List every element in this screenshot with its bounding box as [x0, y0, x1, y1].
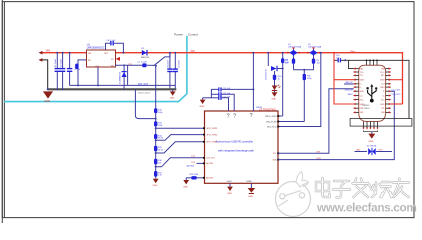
svg-text:5V0: 5V0: [191, 50, 196, 53]
wire cyan power/control boundary: [4, 36, 187, 102]
capacitor C3: [67, 52, 81, 86]
ground U3 GND2 pin: [227, 183, 233, 195]
svg-text:Q3 DTC143: Q3 DTC143: [265, 68, 267, 80]
op-amp U1 buck regulator LMR16006: [87, 43, 116, 68]
node VIN port: [39, 48, 51, 54]
wire resistor ladder spine: [155, 66, 157, 179]
resistor R9 gate: [312, 56, 320, 69]
svg-text:100k: 100k: [307, 78, 311, 80]
inductor L1: [138, 62, 154, 68]
capacitor C11 bypass row2: [211, 92, 234, 111]
svg-text:R18 100k: R18 100k: [190, 174, 199, 176]
resistor R17 ladder: [154, 166, 163, 177]
transistor Q1 power FET: [287, 44, 301, 56]
capacitor C12 bypass row3: [203, 96, 231, 111]
svg-text:USB_DP: USB_DP: [345, 82, 353, 84]
diode D3 LED: [272, 85, 281, 91]
svg-text:GND: GND: [227, 193, 232, 195]
wire SDA net to connector CC: [278, 91, 394, 160]
wire U1 SW output: [115, 64, 142, 66]
wire shield top loop: [349, 60, 409, 118]
ground R18: [183, 178, 189, 189]
svg-text:GND: GND: [153, 185, 158, 187]
svg-text:GPIO_PWR2: GPIO_PWR2: [206, 134, 217, 136]
diode D4 ESD TVS array: [355, 146, 393, 156]
node U3 right pin labels: [265, 116, 277, 128]
node U3 bottom pin labels: [227, 180, 253, 183]
wire shield stub to connector: [349, 60, 354, 68]
svg-text:TX2+: TX2+: [381, 99, 385, 101]
svg-text:ADCIN1: ADCIN1: [206, 162, 213, 165]
wire ladder tap 1 to U3: [156, 127, 205, 129]
svg-text:GND: GND: [170, 98, 175, 100]
svg-text:100k: 100k: [158, 125, 162, 127]
capacitor C9: [173, 52, 181, 89]
svg-text:TX1-: TX1-: [360, 75, 364, 77]
svg-text:49.9k: 49.9k: [158, 138, 163, 140]
svg-text:C9 22uF: C9 22uF: [178, 59, 180, 68]
svg-text:LDO_3V3: LDO_3V3: [206, 158, 214, 160]
ground main input: [43, 91, 53, 103]
svg-text:C4 0.1uF: C4 0.1uF: [106, 40, 116, 42]
svg-text:VIN: VIN: [46, 48, 50, 52]
wire GD pin to U3: [278, 121, 304, 123]
svg-text:C1 10uF: C1 10uF: [55, 58, 57, 67]
svg-text:Autonomous USB PD controller: Autonomous USB PD controller: [216, 140, 254, 144]
wire VBUS left drop to connector: [333, 52, 354, 104]
wire inductor output riser to 5V rail: [154, 52, 171, 67]
svg-text:CC_OUT1: CC_OUT1: [392, 90, 401, 92]
svg-text:Power plane: Power plane: [138, 92, 151, 95]
svg-text:GPIO_PWR3: GPIO_PWR3: [206, 142, 217, 144]
svg-text:C12 1uF: C12 1uF: [223, 96, 231, 98]
ground connector shell: [364, 131, 378, 143]
svg-text:CC1: CC1: [360, 95, 363, 97]
svg-text:RX1-: RX1-: [381, 75, 385, 77]
resistor R16 ladder: [154, 152, 163, 165]
svg-text:VBus: VBus: [350, 51, 356, 53]
capacitor C1: [55, 52, 60, 90]
svg-text:D+: D+: [360, 84, 362, 86]
svg-text:ADCIN2: ADCIN2: [206, 177, 213, 180]
diode D2 on rail: [141, 48, 150, 59]
node TP1 test point: [128, 64, 133, 86]
svg-text:10k: 10k: [285, 62, 288, 64]
capacitor C8: [167, 53, 172, 89]
svg-text:?: ?: [250, 113, 253, 119]
svg-text:GND: GND: [44, 99, 50, 103]
resistor R11 gate drive: [303, 70, 312, 122]
svg-text:VBUS: VBUS: [256, 107, 262, 109]
svg-text:1k: 1k: [278, 78, 280, 80]
resistor R10 LED series: [273, 71, 282, 86]
svg-text:VBig_IN_BB: VBig_IN_BB: [266, 121, 277, 123]
svg-text:RX1+: RX1+: [380, 72, 384, 74]
svg-text:100k: 100k: [158, 112, 162, 114]
svg-text:5V0_OUT: 5V0_OUT: [138, 84, 149, 86]
svg-text:?: ?: [233, 114, 236, 120]
resistor R14 ladder: [154, 127, 163, 140]
svg-text:SBU2: SBU2: [380, 87, 384, 89]
wire gate bus: [294, 69, 314, 71]
svg-text:SCL: SCL: [273, 153, 277, 155]
node USB logo trident: [368, 87, 377, 101]
svg-text:VBUS_VRES: VBUS_VRES: [265, 116, 277, 118]
svg-text:CSD17579Q3A: CSD17579Q3A: [308, 45, 322, 48]
wire feed from bus down to ladder: [135, 89, 155, 118]
node GND input port: [39, 58, 48, 89]
svg-text:GND: GND: [248, 196, 253, 198]
svg-text:GND: GND: [271, 99, 276, 101]
wire 5V0_OUT net: [70, 84, 176, 95]
node U3 pin question marks: [227, 113, 253, 119]
capacitor C2: [60, 52, 65, 90]
node I2C address strap labels: [187, 156, 205, 167]
svg-text:TYPE-C: TYPE-C: [362, 108, 370, 110]
svg-text:RX2-: RX2-: [360, 108, 364, 110]
svg-text:GND: GND: [183, 186, 188, 188]
svg-text:ADCIN2: ADCIN2: [187, 165, 195, 168]
svg-text:SW: SW: [111, 65, 114, 67]
wire VBUS cap feed from rail: [252, 52, 262, 111]
svg-text:24.9k: 24.9k: [158, 149, 163, 151]
node U3 left pin labels: [206, 128, 217, 180]
capacitor C4 bootstrap: [106, 40, 125, 54]
op-amp U3 PD controller TPS25750: [205, 108, 279, 183]
svg-text:U1: U1: [87, 43, 91, 47]
wire SCL net to connector D+: [278, 89, 354, 154]
resistor R7 gate: [285, 56, 295, 69]
node CC net labels right: [392, 90, 401, 96]
svg-text:LMR16006XDDC: LMR16006XDDC: [87, 47, 105, 49]
svg-text:D+: D+: [382, 95, 384, 97]
svg-text:L1 2.2uH: L1 2.2uH: [138, 62, 147, 64]
svg-text:C8 22uF: C8 22uF: [167, 59, 169, 68]
svg-text:SBU1: SBU1: [360, 91, 364, 93]
wire ladder tap 2 to U3: [156, 135, 205, 141]
node U3 pin dots left: [203, 127, 205, 178]
resistor R8: [281, 52, 289, 116]
ground output caps: [170, 89, 176, 99]
svg-text:VBus_Rear: VBus_Rear: [267, 125, 277, 128]
wire VBUS right drop to connector: [391, 80, 403, 104]
wire main red 5V rail: [43, 53, 403, 104]
resistor R15 ladder: [154, 139, 163, 151]
wire connector shell box: [350, 119, 412, 127]
svg-text:ThPAD: ThPAD: [246, 180, 253, 183]
svg-text:GND2: GND2: [227, 181, 232, 183]
svg-text:SBU1: SBU1: [348, 94, 353, 96]
wire U1 ground pin to bus: [97, 67, 99, 85]
wire D- stub: [344, 83, 354, 85]
svg-text:GND: GND: [369, 141, 374, 143]
svg-text:D1 MBR0520: D1 MBR0520: [119, 71, 121, 84]
svg-text:?: ?: [227, 114, 230, 120]
svg-text:with integrated discharge path: with integrated discharge path: [218, 148, 254, 152]
svg-text:MBR230: MBR230: [141, 57, 150, 59]
wire ground bus plane: [48, 88, 177, 90]
wire ladder tap 4 to U3: [156, 158, 205, 167]
resistor R12 ladder: [154, 108, 163, 114]
wire R8 column to U3 VBUS_VRES pin: [278, 115, 283, 117]
capacitor C14 shield: [335, 55, 349, 62]
wire VBUS sense to U3: [278, 52, 322, 127]
svg-text:C10 1uF: C10 1uF: [223, 88, 231, 90]
svg-text:Power: Power: [174, 32, 183, 36]
svg-text:Control: Control: [188, 32, 198, 36]
node U3 right pin dots: [277, 115, 279, 160]
svg-text:GND: GND: [200, 106, 205, 108]
capacitor C10 bypass row1: [211, 87, 253, 97]
ground LED: [271, 91, 277, 101]
node connector bottom pins: [364, 122, 378, 128]
node Power Control divider labels: [174, 32, 198, 36]
svg-text:C2 10uF: C2 10uF: [61, 58, 63, 67]
connector J1 USB Type-C body: [359, 65, 386, 121]
node elecfans watermark logo: [276, 172, 311, 217]
node connector right pins: [380, 67, 391, 114]
svg-text:D4 TPD2E: D4 TPD2E: [367, 146, 377, 148]
svg-text:TX1+: TX1+: [360, 72, 364, 74]
resistor R18 pulldown: [186, 174, 204, 179]
svg-text:GPIO_PWR1: GPIO_PWR1: [206, 128, 217, 130]
svg-text:C11 1uF: C11 1uF: [223, 93, 231, 95]
node elecfans watermark text: [316, 178, 417, 215]
svg-text:10k: 10k: [158, 163, 161, 165]
ground bypass caps: [200, 98, 206, 108]
svg-text:10k: 10k: [317, 62, 320, 64]
ground U3 thermal pad: [248, 183, 256, 198]
svg-text:www.elecfans.com: www.elecfans.com: [316, 201, 417, 215]
node connector left pins: [353, 67, 365, 114]
resistor R13 ladder: [154, 118, 163, 127]
node U1 NC pin red arrow: [116, 57, 121, 61]
svg-text:TX2-: TX2-: [381, 108, 385, 110]
transistor Q3 LED driver: [265, 52, 282, 80]
transistor Q2 power FET: [307, 44, 321, 56]
resistor R1 enable divider: [75, 60, 86, 86]
svg-text:4.7k: 4.7k: [158, 175, 162, 177]
ground ladder bottom: [153, 179, 159, 187]
diode D1 catch: [119, 64, 126, 89]
node SBU net labels left: [345, 82, 354, 96]
node connector top pins: [367, 60, 378, 65]
svg-text:CC_OUT2: CC_OUT2: [392, 94, 401, 96]
wire ladder tap 3 to U3: [156, 142, 205, 153]
svg-text:GND: GND: [95, 66, 100, 68]
svg-text:RX2+: RX2+: [360, 99, 364, 101]
svg-text:USB_DM: USB_DM: [345, 90, 353, 92]
svg-text:CSD17579Q3A: CSD17579Q3A: [288, 45, 302, 48]
svg-text:CC2: CC2: [381, 84, 384, 86]
